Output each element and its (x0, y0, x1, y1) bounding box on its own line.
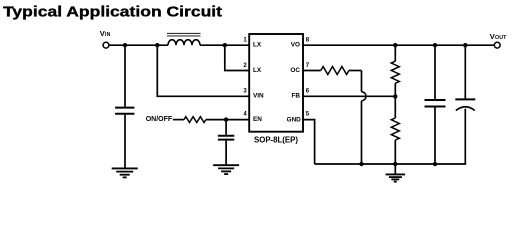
wire resistor to vertical (349, 70, 362, 72)
wire FB pin to divider (303, 95, 395, 97)
wire VO to VOUT (303, 44, 494, 46)
svg-text:GND: GND (287, 116, 302, 123)
svg-text:8: 8 (306, 38, 310, 44)
wire input cap lead (124, 45, 126, 106)
svg-text:OUT: OUT (495, 35, 507, 41)
node OC rail (359, 162, 363, 166)
wire cap3 top lead (464, 45, 466, 98)
wire divider middle (394, 83, 396, 118)
inductor L1 (167, 33, 201, 45)
node divider top (393, 43, 397, 47)
capacitor C-in (115, 108, 134, 114)
node FB divider (393, 94, 397, 98)
resistor R-EN (184, 117, 206, 123)
label VIN (100, 29, 111, 38)
wire hop over FB (362, 92, 367, 101)
capacitor C-out2 polarized (455, 99, 475, 110)
node cap3 top (463, 43, 467, 47)
wire cap3 bottom lead (464, 109, 466, 164)
wire cap to ground (124, 115, 126, 169)
ground G3 (386, 174, 406, 181)
wire ON/OFF to resistor (173, 119, 184, 121)
node EN junction (224, 117, 228, 121)
svg-text:5: 5 (306, 111, 310, 117)
svg-text:FB: FB (291, 93, 300, 100)
svg-text:IN: IN (105, 32, 111, 38)
capacitor C-EN (218, 136, 234, 140)
terminal VIN (103, 42, 109, 48)
svg-text:ON/OFF: ON/OFF (146, 116, 173, 123)
wire inductor to pin1 (200, 44, 249, 46)
wire OC pin to resistor (303, 70, 321, 72)
svg-text:VO: VO (291, 42, 300, 49)
svg-text:LX: LX (253, 42, 262, 49)
svg-text:Typical Application Circuit: Typical Application Circuit (3, 4, 222, 21)
svg-text:3: 3 (243, 89, 247, 95)
svg-text:2: 2 (243, 63, 247, 69)
node divider rail (393, 162, 397, 166)
wire to pin3 (157, 45, 249, 96)
wire OC vertical lower (361, 101, 363, 164)
resistor R-OC (321, 67, 349, 75)
wire GND pin to rail (303, 120, 315, 164)
svg-text:VIN: VIN (253, 93, 264, 100)
resistor R-top (391, 61, 399, 83)
wire cap2 bottom lead (434, 108, 436, 165)
node cap2 top (433, 43, 437, 47)
node lx junction (223, 43, 227, 47)
svg-text:7: 7 (306, 63, 310, 69)
op-amp U1 (IC SOP-8L body) (249, 34, 303, 132)
wire VIN to inductor (109, 44, 168, 46)
capacitor C-out1 (425, 100, 446, 107)
wire OC vertical upper (361, 71, 363, 92)
wire divider top lead (394, 45, 396, 61)
wire ground stub (394, 164, 396, 174)
ground G1 (112, 168, 138, 177)
svg-text:OC: OC (290, 67, 300, 74)
resistor R-bottom (391, 118, 399, 140)
svg-text:EN: EN (253, 116, 262, 123)
svg-text:LX: LX (253, 67, 262, 74)
node cap2 rail (433, 162, 437, 166)
wire EN cap to ground (225, 141, 227, 165)
wire EN cap lead (225, 120, 227, 135)
node vin-pin3 junction (155, 43, 159, 47)
svg-text:SOP-8L(EP): SOP-8L(EP) (254, 135, 298, 144)
wire ground rail (315, 163, 467, 165)
svg-text:6: 6 (306, 89, 310, 95)
terminal VOUT (494, 42, 500, 48)
wire to pin2 (225, 45, 249, 70)
wire resistor to EN pin (206, 119, 249, 121)
svg-text:4: 4 (243, 111, 247, 117)
wire divider bottom lead (394, 140, 396, 164)
svg-text:1: 1 (243, 38, 247, 44)
ground G2 (213, 165, 239, 174)
label VOUT (490, 32, 507, 41)
node input-cap junction (123, 43, 127, 47)
wire cap2 top lead (434, 45, 436, 99)
